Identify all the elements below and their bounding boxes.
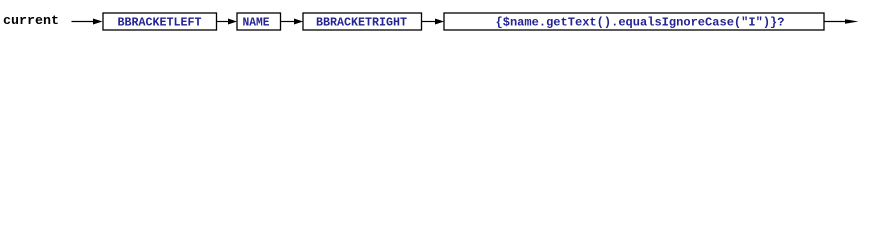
terminal box BBRACKETLEFT [103,13,217,30]
terminal box BBRACKETRIGHT [303,13,422,30]
background [0,0,874,50]
wire: end arrow line [824,21,847,23]
wire: connector line [217,21,230,23]
wire: connector line [281,21,295,23]
svg-text:BBRACKETRIGHT: BBRACKETRIGHT [316,15,407,29]
svg-text:NAME: NAME [243,15,270,29]
end arrowhead [845,19,859,23]
arrowhead into predicate box [435,19,444,25]
wire: start arrow line [72,21,95,23]
svg-text:{$name.getText().equalsIgnoreC: {$name.getText().equalsIgnoreCase("I")}? [496,15,785,29]
svg-text:BBRACKETLEFT: BBRACKETLEFT [118,15,202,29]
semantic predicate box [444,13,824,30]
svg-text:current: current [3,13,59,28]
wire: connector line [422,21,436,23]
arrowhead into BBRACKETRIGHT [294,19,303,25]
arrowhead into NAME [228,19,237,25]
terminal box NAME [237,13,281,30]
arrowhead into BBRACKETLEFT [93,19,103,25]
